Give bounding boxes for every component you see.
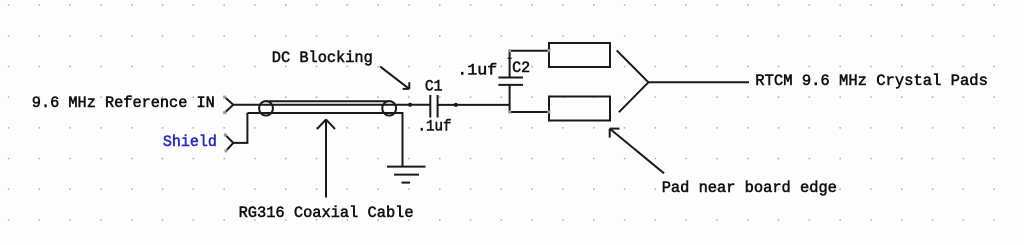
- pad rectangle bottom: [549, 97, 610, 121]
- coaxial cable right end ellipse: [382, 101, 396, 115]
- wire: coax shield bottom line to ground drop: [247, 113, 402, 167]
- annotation arrow Pad near board edge: [610, 129, 664, 174]
- svg-text:Shield: Shield: [163, 133, 217, 151]
- svg-text:.1uf: .1uf: [418, 117, 452, 135]
- wire endpoint markers: [223, 49, 550, 152]
- capacitor C2 pin 1 lead: [509, 51, 511, 78]
- coaxial cable body top line: [266, 100, 389, 102]
- junction dot C1 pin 1: [408, 103, 412, 107]
- wire: node to bottom pad: [510, 111, 549, 113]
- annotation arrow DC Blocking: [380, 67, 409, 89]
- capacitor C2 pin 2 lead to node: [509, 85, 511, 112]
- wire: C2 top to top pad: [510, 50, 549, 52]
- port pin 9.6 MHz Reference IN: [225, 97, 234, 113]
- wire: C1 right plate to C2 node: [438, 104, 510, 106]
- svg-text:RG316 Coaxial Cable: RG316 Coaxial Cable: [239, 204, 414, 222]
- pad rectangle top: [549, 43, 610, 67]
- svg-text:C2: C2: [512, 59, 530, 77]
- wire: diagonal from top pad: [617, 50, 649, 82]
- capacitor C2 pin 1 junction tick: [508, 57, 512, 59]
- svg-text:RTCM 9.6 MHz Crystal Pads: RTCM 9.6 MHz Crystal Pads: [755, 72, 988, 90]
- svg-text:9.6 MHz Reference IN: 9.6 MHz Reference IN: [32, 94, 215, 112]
- svg-text:.1uf: .1uf: [457, 62, 497, 80]
- junction dot C1 pin 2: [454, 103, 458, 107]
- svg-text:Pad near board edge: Pad near board edge: [662, 179, 837, 197]
- coaxial cable left end ellipse: [259, 101, 273, 115]
- wire: input pin to C1 left plate: [233, 104, 429, 106]
- capacitor C2 plates: [498, 77, 523, 79]
- wire: apex to RTCM label: [648, 81, 749, 83]
- svg-text:C1: C1: [425, 77, 443, 95]
- wire: shield pin to coax shield: [233, 113, 247, 143]
- ground symbol: [387, 166, 426, 168]
- capacitor C1 plates: [429, 95, 431, 118]
- annotation arrow RG316: [325, 120, 327, 198]
- wire: diagonal from bottom pad: [619, 82, 649, 112]
- port pin Shield: [225, 135, 233, 151]
- svg-text:DC Blocking: DC Blocking: [272, 49, 373, 67]
